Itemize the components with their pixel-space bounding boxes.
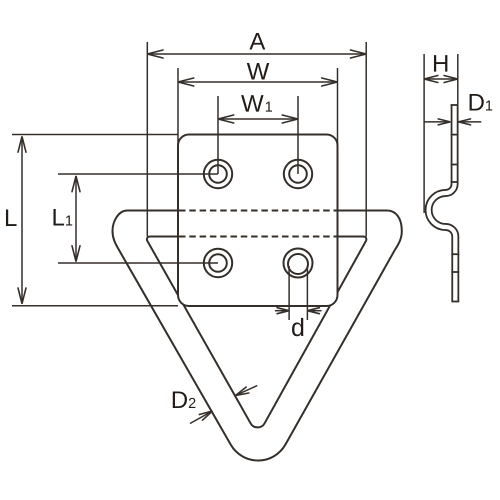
strip top end cap — [451, 104, 459, 106]
hidden edge of ring behind plate (lower dashed line) — [179, 236, 337, 238]
arrowhead d left — [277, 308, 289, 314]
extension line W left — [177, 68, 179, 146]
arrowhead L1 top — [72, 176, 80, 192]
triangle ring outer outline — [113, 211, 402, 461]
arrowhead H left — [424, 76, 438, 83]
extension line A left — [146, 42, 148, 237]
extension line H left — [423, 54, 425, 213]
extension line d left — [288, 266, 290, 320]
hole top-right — [284, 160, 312, 188]
side profile strip — [429, 105, 456, 302]
hidden edge of ring behind plate (upper dashed line) — [179, 210, 337, 212]
dimension line L1 — [75, 176, 77, 262]
dimension leader D1 right — [459, 121, 482, 123]
label W — [247, 63, 269, 80]
label W1 — [241, 95, 272, 112]
extension line W1 right down to hole center — [297, 96, 299, 174]
hidden tick plate top — [451, 134, 459, 136]
arrowhead L1 bottom — [72, 246, 80, 262]
hidden tick top hole lower — [451, 181, 459, 183]
arrowhead D2 lower — [199, 411, 212, 420]
arrowhead D1 right — [459, 119, 471, 125]
arrowhead A left — [147, 50, 163, 58]
hidden tick bottom hole upper — [451, 253, 459, 255]
extension line W1 left down to hole center — [217, 96, 219, 174]
extension line d right — [306, 266, 308, 320]
arrowhead D1 left — [438, 119, 450, 125]
triangle ring inner outline — [147, 237, 366, 428]
label H — [434, 55, 447, 72]
extension line A right — [365, 42, 367, 237]
dimension leader d left — [275, 310, 289, 312]
label L1 — [53, 209, 72, 226]
arrowhead W1 right — [282, 115, 298, 123]
arrowhead W right — [322, 78, 338, 86]
extension line W right — [337, 68, 339, 146]
arrowhead L top — [18, 137, 26, 153]
hidden tick bottom hole lower — [451, 271, 459, 273]
dimension line H — [424, 78, 458, 80]
label A — [249, 33, 265, 50]
hole top-left — [204, 160, 232, 188]
extension line L top — [12, 134, 178, 136]
arrowhead W1 left — [218, 115, 234, 123]
dimension leader d right — [307, 310, 321, 312]
dimension line W — [178, 81, 338, 83]
arrowheads front view — [18, 50, 366, 420]
arrowhead H right — [444, 76, 458, 83]
dimension line W1 — [218, 118, 298, 120]
mounting plate (front view) — [178, 135, 338, 307]
extension line H right — [457, 54, 459, 105]
dimension leader D1 left — [424, 121, 451, 123]
arrowhead D2 upper — [236, 387, 249, 395]
label D2 — [173, 391, 196, 408]
leader arrow line D2 upper — [236, 386, 258, 396]
label D1 — [470, 94, 493, 111]
hole bottom-right — [284, 249, 313, 278]
leader arrow line D2 lower — [190, 411, 212, 424]
strip bottom end cap — [451, 301, 459, 303]
hole bottom-left — [204, 249, 232, 277]
extension line L1 bottom — [58, 262, 218, 264]
hidden tick top hole upper — [451, 164, 459, 166]
arrowhead L bottom — [18, 288, 26, 304]
extension line L bottom — [12, 305, 178, 307]
label d — [292, 318, 303, 336]
label L — [6, 209, 17, 226]
dimension line A — [147, 53, 366, 55]
arrowhead d right — [307, 308, 319, 314]
dimension line L — [21, 137, 23, 304]
arrowhead A right — [351, 50, 367, 58]
extension line L1 top — [58, 173, 218, 175]
arrowhead W left — [178, 78, 194, 86]
